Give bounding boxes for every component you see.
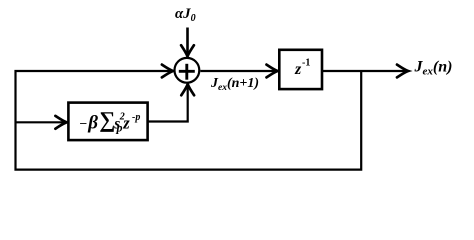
- svg-text:z: z: [294, 61, 302, 78]
- summing junction plus sign: [179, 70, 195, 73]
- wire: arrowhead into summer left: [162, 65, 173, 78]
- delay block box z^-1: [279, 50, 322, 89]
- wire: arrowhead into z-block: [267, 65, 278, 78]
- wire: branch horizontal into filter block: [16, 121, 66, 123]
- svg-text:Jex(n): Jex(n): [414, 59, 453, 78]
- wire: z-block output to output arrow: [322, 70, 407, 72]
- wire: arrowhead into filter block: [55, 116, 66, 129]
- wire: arrowhead into summer top: [181, 45, 194, 56]
- svg-text:-1: -1: [302, 57, 310, 68]
- wire: arrowhead into summer bottom: [181, 84, 194, 95]
- summing junction circle: [175, 58, 200, 83]
- filter block box: [68, 103, 147, 141]
- svg-text:Jex(n+1): Jex(n+1): [210, 76, 259, 93]
- wire: summer output to z-block: [200, 70, 276, 72]
- wire: filter block output, right then up into summer bottom: [147, 85, 188, 122]
- wire: output arrowhead: [397, 65, 408, 78]
- wire: feedback loop (tap down, bottom, left up, into summer): [16, 71, 362, 170]
- wire: alphaJ0 vertical into summer top: [186, 28, 189, 56]
